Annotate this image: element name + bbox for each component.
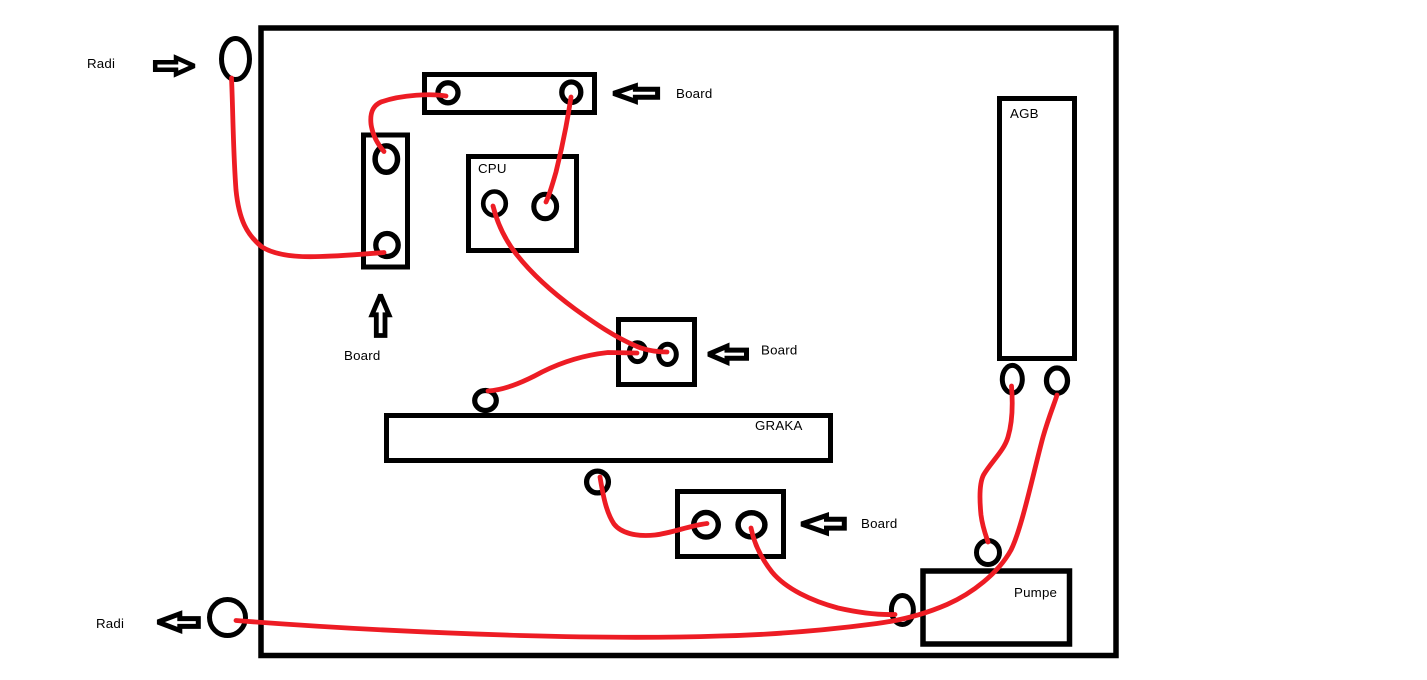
arrow right to radiator top: [155, 58, 194, 74]
port CPU right: [534, 194, 557, 218]
tube CPU left port to B3 right port: [493, 206, 667, 352]
tube B4 right port to pump-left oval: [751, 528, 895, 615]
port B3 right: [659, 344, 677, 364]
radiator port top (oval): [222, 39, 250, 80]
GRAKA card rectangle: [387, 416, 831, 461]
port B4 left: [694, 513, 719, 538]
board B1 top rectangle: [425, 75, 595, 113]
port B4 right: [738, 513, 765, 537]
port B1 right: [562, 82, 581, 102]
case outline: [261, 28, 1116, 656]
port below GRAKA: [587, 471, 609, 493]
svg-text:Radi: Radi: [87, 56, 115, 71]
arrow left to radiator bottom: [158, 614, 199, 631]
board B3 small rectangle: [619, 320, 695, 385]
free port near GRAKA: [475, 391, 497, 411]
tube radiator-bottom through pump oval to AGB right port: [236, 395, 1057, 637]
tube AGB left port to pump-top port: [980, 386, 1012, 542]
port above Pumpe: [977, 541, 1000, 565]
arrow left at board B1: [614, 86, 658, 101]
port B2 bottom: [376, 234, 398, 257]
AGB reservoir rectangle: [1000, 99, 1075, 359]
arrow left at board B3: [709, 346, 747, 362]
svg-text:Board: Board: [344, 348, 380, 363]
svg-text:CPU: CPU: [478, 161, 507, 176]
arrow left at board B4: [802, 516, 845, 533]
svg-text:GRAKA: GRAKA: [755, 418, 803, 433]
Pumpe rectangle: [923, 571, 1070, 644]
CPU block: [469, 157, 577, 251]
port AGB left: [1002, 365, 1022, 393]
tube B1 right port to CPU right port: [546, 97, 571, 202]
svg-text:AGB: AGB: [1010, 106, 1039, 121]
radiator port bottom (circle): [210, 600, 246, 636]
svg-text:Pumpe: Pumpe: [1014, 585, 1057, 600]
port AGB right: [1047, 368, 1068, 393]
port left of Pumpe (oval): [891, 596, 913, 625]
arrow up at board B2: [372, 295, 389, 336]
tube GRAKA port to B4 left port: [600, 477, 707, 536]
port B3 left: [629, 343, 645, 362]
board B2 vertical rectangle: [364, 135, 408, 267]
tube free port to B3 left port: [488, 353, 637, 392]
port B2 top: [375, 146, 397, 172]
board B4 bottom rectangle: [678, 492, 784, 557]
svg-text:Board: Board: [861, 516, 897, 531]
port CPU left: [483, 192, 506, 216]
tube B1 left port to B2 top port: [371, 95, 446, 152]
svg-text:Radi: Radi: [96, 616, 124, 631]
port B1 left: [438, 83, 458, 103]
tube radiator-top to B2 bottom port: [232, 78, 385, 257]
svg-text:Board: Board: [761, 343, 797, 358]
svg-text:Board: Board: [676, 86, 712, 101]
